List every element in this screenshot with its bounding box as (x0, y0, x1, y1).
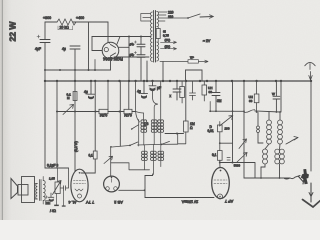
wire col2 top hook (154, 104, 157, 120)
svg-text:0,5M: 0,5M (100, 113, 108, 117)
antenna (305, 62, 315, 65)
svg-text:0,1: 0,1 (212, 153, 217, 157)
wire C1 to bus (44, 43, 46, 169)
capacitor C1 4uF (40, 40, 50, 43)
switch blade S2b (161, 144, 163, 146)
capacitor C7 (212, 81, 220, 111)
capacitor C6 (173, 81, 181, 100)
wire x108 drop (107, 81, 109, 110)
svg-text:1,05: 1,05 (49, 177, 55, 181)
svg-text:0,1μF 3: 0,1μF 3 (47, 164, 58, 168)
grid line y111 (57, 111, 136, 113)
svg-text:200: 200 (225, 127, 230, 131)
tube AL4 (71, 169, 88, 202)
svg-text:AL 4: AL 4 (68, 200, 77, 205)
wire speaker to T2 (35, 184, 38, 200)
svg-text:3M: 3M (217, 99, 222, 103)
svg-text:4μF: 4μF (129, 42, 134, 46)
B+ rail y70 (45, 57, 111, 70)
tuning arrow coils (286, 137, 298, 145)
T1 left bracket taps (141, 14, 151, 22)
earth arrow (310, 183, 312, 202)
T1 tap 220 (159, 11, 167, 13)
tube AF7 (212, 168, 230, 199)
wire left drop x45 (44, 22, 46, 39)
svg-text:0,01: 0,01 (208, 129, 214, 133)
heater wire bottom (145, 197, 214, 199)
coil L4a (267, 120, 272, 144)
wire rectifier top feed (92, 36, 151, 38)
bus junction dots (44, 80, 312, 82)
capacitor C3 4uF450 (137, 44, 145, 46)
wire osc coupling curve (136, 112, 140, 123)
wire top feed to tube (107, 22, 109, 42)
switch S3 (243, 110, 245, 112)
wire y133 link (165, 133, 184, 135)
trimmer arrow right (237, 153, 247, 163)
svg-text:5000: 5000 (234, 163, 241, 167)
frame blade (132, 125, 139, 129)
coil L3 lower col3 (158, 151, 164, 160)
capacitor E3 below bus (149, 81, 156, 86)
svg-text:(0,2 W): (0,2 W) (74, 141, 78, 152)
resistor R6 (180, 87, 185, 98)
trimmer arrow AF7 (239, 139, 247, 149)
svg-text:AF 7: AF 7 (224, 199, 233, 204)
contact pair (257, 113, 259, 127)
resistor R1 20k zigzag (57, 19, 76, 25)
svg-text:4μ: 4μ (137, 90, 141, 94)
svg-text:(4V): (4V) (165, 38, 171, 42)
wire col1 top (136, 112, 144, 120)
svg-text:W³: W³ (190, 55, 194, 59)
dial lamp line (160, 60, 208, 63)
transformer T1 secondary winding right (157, 12, 159, 61)
T1 tap 110 (159, 14, 166, 16)
wire x88 drop (88, 22, 90, 70)
capacitor C4 4uF450 (137, 55, 145, 57)
capacitor C10 (48, 193, 54, 197)
fuse F1 (156, 29, 160, 39)
svg-text:4μ: 4μ (84, 90, 88, 94)
junction dots y111 (74, 111, 76, 113)
band switch line (112, 144, 178, 147)
svg-text:M: M (67, 96, 70, 100)
wire tube cathode to rail (94, 60, 96, 71)
wire blade pivot drop (110, 146, 112, 148)
speaker horn (11, 179, 18, 199)
box label (46, 201, 51, 205)
svg-text:0,75: 0,75 (163, 34, 169, 38)
T1 switch tap (159, 17, 188, 19)
wire antenna drop (310, 81, 312, 171)
svg-text:0,1: 0,1 (89, 154, 94, 158)
trimmer arrow big (220, 116, 233, 126)
wire grid AF7 (220, 163, 255, 179)
capacitor E2 below bus (141, 81, 148, 94)
svg-text:4μ: 4μ (62, 47, 66, 51)
dial lamp box (188, 60, 198, 63)
transformer T1 HV winding left (150, 12, 152, 61)
resistor R3 1M (124, 109, 132, 113)
tube AB2 (104, 176, 120, 192)
transformer T2 core (40, 180, 42, 201)
svg-text:0,1M: 0,1M (124, 113, 132, 117)
label 20 kOhm (58, 26, 73, 30)
wire top-left horizontal (45, 21, 108, 23)
resistor R5 1M vertical (184, 121, 189, 132)
svg-text:≈ 2V: ≈ 2V (203, 39, 211, 43)
wire lower col bottoms (144, 161, 160, 175)
coil L1 upper col1 (141, 120, 147, 133)
capacitor C6b (190, 81, 196, 100)
T1 tap 4V arrow (161, 41, 177, 43)
arrow down small (309, 186, 313, 197)
coil L1 upper col2 (151, 120, 157, 133)
capacitor C2 4uF (70, 46, 80, 49)
svg-text:4μF: 4μF (35, 47, 41, 51)
wire T1 bottom drops (147, 61, 163, 81)
wire col3 top (160, 81, 162, 120)
transformer T1 core (154, 11, 156, 63)
svg-text:4μF: 4μF (129, 53, 134, 57)
coil frame line (138, 120, 140, 147)
coil L5b (275, 149, 284, 164)
wire x129 drop (128, 37, 130, 110)
svg-text:2V 150mA: 2V 150mA (181, 200, 198, 204)
wire x97 drop (94, 81, 96, 151)
switch S1 mains (187, 17, 189, 19)
potentiometer P2 (55, 182, 60, 194)
capacitor C11 (60, 168, 68, 190)
svg-text:AB 2: AB 2 (113, 200, 122, 205)
wire C3 C4 stack (140, 37, 142, 82)
switch blob (285, 176, 301, 179)
svg-text:DB: DB (46, 201, 50, 205)
T2 primary winding (36, 184, 38, 200)
wires AB2 top right (111, 163, 150, 170)
B+ rail right segment (186, 70, 203, 81)
coil L4b (278, 120, 283, 144)
potentiometer P1 arrow (63, 105, 74, 115)
T1 tap 2V arrow (161, 48, 177, 50)
svg-text:88: 88 (209, 90, 213, 94)
capacitor C8 small (227, 158, 230, 161)
T2 secondary winding (43, 181, 45, 201)
resistor R8 0,01 (218, 125, 223, 132)
svg-text:/ 4Ω: / 4Ω (50, 209, 57, 213)
wire col bottoms to band line (144, 132, 161, 145)
svg-text:(2V): (2V) (165, 44, 171, 48)
wire x232 drop (232, 81, 234, 163)
wire y168 left (45, 167, 69, 169)
wire tube bottom heater (114, 56, 149, 58)
ground bar pot (54, 205, 59, 207)
resistor R10 (254, 94, 259, 103)
wire to tube left (92, 37, 102, 51)
wire R4 to AL4 (81, 159, 95, 173)
svg-text:+300: +300 (43, 16, 51, 20)
resistor R7 UH (202, 85, 207, 95)
svg-text:20 kΩ: 20 kΩ (60, 26, 70, 30)
wire x57 drop (56, 81, 58, 168)
svg-text:+400: +400 (76, 16, 84, 20)
resistor R1b below bus (73, 92, 77, 101)
wire to tube top (117, 37, 120, 45)
ground bus y81 (45, 80, 311, 82)
wire heater drop (144, 176, 146, 198)
wire x135.6 drop (135, 81, 137, 112)
coil L1 upper col3 (158, 120, 164, 133)
capacitor E1 below bus (88, 81, 95, 94)
switch blade S2a (129, 145, 131, 147)
wire C2 to bus (74, 49, 76, 171)
speaker frame (22, 177, 35, 203)
wire tube anode right (119, 46, 129, 48)
rectifier tube U1 RGN1064 (102, 42, 119, 59)
trimmer arrow at AB2 (104, 156, 113, 163)
svg-text:W: W (272, 92, 275, 96)
wire x113 drop to AB2 (119, 81, 121, 146)
svg-text:88: 88 (249, 99, 253, 103)
wire lower col tops (144, 144, 160, 151)
svg-text:7 7V: 7 7V (86, 200, 95, 205)
wire y178 (244, 177, 290, 179)
coil L3 lower col1 (142, 151, 148, 160)
wire x244 drop (243, 81, 245, 178)
wire grid bus line y111 (210, 110, 244, 112)
resistor R4 0,1 (93, 151, 97, 159)
speaker driver (18, 185, 28, 196)
capacitor C9 (273, 81, 280, 112)
page fold line (1, 0, 3, 220)
rail junction dots (44, 69, 46, 71)
resistor R9 0,1 (218, 151, 223, 161)
resistor R2 0.5M (99, 109, 108, 113)
bracket to R5 (178, 132, 186, 144)
svg-text:22 W: 22 W (8, 21, 18, 42)
wire AB2 heater (119, 189, 145, 191)
coil L5a (263, 149, 268, 164)
coil L3 lower col2 (151, 151, 157, 160)
